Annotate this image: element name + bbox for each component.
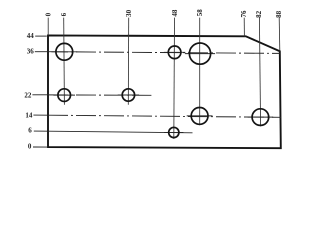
crosshair (6,36) [51, 51, 77, 53]
hole circle (48,36) [168, 46, 181, 59]
hole circle (30,22) [122, 89, 134, 101]
hole circle (82,14) [252, 109, 269, 126]
crosshair (48,6) [164, 132, 183, 134]
svg-text:48: 48 [171, 9, 179, 17]
label dash y=0 [33, 146, 48, 148]
hole circle (48,6) [169, 127, 179, 137]
svg-text:76: 76 [240, 10, 248, 18]
extension line x=0 [47, 18, 49, 36]
hole circle (58,14) [191, 108, 208, 125]
crosshair (58,14) [187, 115, 213, 117]
svg-text:36: 36 [27, 48, 35, 56]
extension/center line x=82 [259, 18, 260, 127]
extension/center line x=48 [173, 18, 176, 139]
centerline y=22 [48, 94, 151, 96]
crosshair (48,36) [164, 51, 186, 53]
hole circle (6,36) [56, 43, 73, 60]
svg-text:6: 6 [60, 12, 68, 16]
plate outline [48, 35, 281, 148]
centerline y=6 [48, 131, 193, 133]
centerline y=14 [48, 115, 281, 117]
extension/center line x=58 [199, 18, 201, 126]
svg-text:0: 0 [45, 12, 53, 16]
svg-text:88: 88 [275, 10, 283, 18]
extension/center line x=6 [63, 18, 66, 105]
crosshair (30,22) [118, 94, 139, 96]
label dash y=6 [34, 130, 48, 132]
centerline y=36 [48, 52, 280, 54]
svg-text:6: 6 [28, 126, 32, 134]
label dash y=36 [35, 51, 48, 53]
label dash y=22 [32, 94, 48, 96]
svg-text:14: 14 [25, 111, 33, 119]
extension line x=88 [278, 18, 281, 52]
label dash y=44 [35, 35, 47, 37]
crosshair (82,14) [248, 116, 274, 118]
svg-text:58: 58 [196, 9, 204, 17]
hole circle (58,36) [189, 43, 210, 64]
crosshair (58,36) [185, 53, 215, 55]
label dash y=14 [33, 114, 48, 116]
svg-text:0: 0 [28, 142, 32, 150]
hole circle (6,22) [58, 89, 71, 102]
svg-text:82: 82 [255, 10, 263, 18]
svg-text:44: 44 [27, 32, 35, 40]
svg-text:30: 30 [125, 9, 133, 17]
svg-text:22: 22 [24, 92, 32, 100]
crosshair (6,22) [53, 94, 75, 96]
extension/center line x=30 [127, 18, 129, 105]
extension line x=76 [243, 18, 245, 37]
